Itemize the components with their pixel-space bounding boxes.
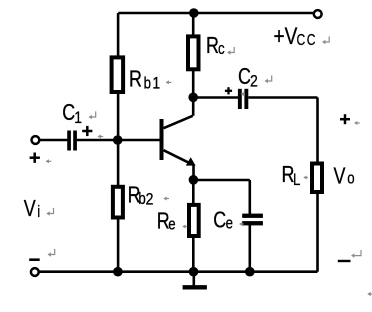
wire bottom rail [39,270,317,273]
node bottom Ce junction [245,267,255,277]
ground bar [183,285,207,289]
wire Ce vertical top [249,180,252,214]
wire collector to C2 [193,96,238,99]
plus input [30,153,40,163]
label Vo [334,163,355,189]
node top rail junction [189,8,199,18]
resistor RL [312,164,322,193]
svg-text:o: o [347,169,354,188]
minus output [338,260,351,262]
label Vi [24,196,40,222]
svg-text:C: C [213,207,226,233]
wire C1 to base [77,139,160,142]
resistor Re [189,205,199,236]
wire emitter stub [192,165,195,181]
plus at C2 [225,87,232,94]
node base junction [113,135,123,145]
svg-text:i: i [37,203,40,222]
wire input to C1 [40,139,68,142]
mark return after Vi [46,208,53,216]
ground stub [193,272,196,290]
label Rb1 [129,66,160,92]
svg-text:V: V [334,163,346,189]
svg-text:2: 2 [146,190,154,208]
svg-text:C: C [238,64,251,90]
transistor Q1 collector lead [164,116,193,128]
svg-text:b: b [144,74,151,93]
label +Vcc [274,22,318,50]
label RL [282,162,301,189]
mark arrow on C2 plate [241,92,246,96]
plus at C1 [82,126,92,136]
svg-text:c: c [218,39,225,58]
node collector junction [188,93,198,103]
transistor Q1 emitter arrow [186,157,196,165]
mark arrow left of Ce [239,222,244,226]
label Ce [213,207,233,233]
mark arrow left of Re resistor [182,225,187,229]
svg-text:R: R [206,33,219,59]
mark return after C1 [89,111,96,119]
node bottom middle junction [189,267,199,277]
wire top rail [118,12,313,15]
terminal +Vcc [314,10,322,18]
wire emitter to Ce branch [193,179,250,182]
capacitor Ce [242,214,263,226]
svg-text:e: e [226,214,233,233]
node bottom left junction [113,267,123,277]
mark return right of output minus [351,250,361,258]
terminal input top [32,136,40,144]
mark return after Rc [227,47,234,55]
label C1 [62,100,82,127]
svg-text:b: b [138,190,145,209]
mark arrow bottom right [367,292,372,296]
wire output vertical [316,98,319,272]
mark return after C2 [265,75,272,83]
label C2 [238,64,258,91]
plus output [340,114,350,124]
label Re [157,208,176,234]
resistor Rb1 [112,57,124,92]
svg-text:+V: +V [274,22,298,50]
svg-text:e: e [168,215,175,234]
mark arrow right of input plus [46,159,52,163]
mark arrow right of output plus [354,121,360,125]
minus input [29,258,40,261]
wire C2 to output [248,96,317,99]
mark arrow after Rb2 [163,197,169,201]
mark return right of input minus [48,249,55,257]
wire left bias vertical [117,13,120,272]
wire Re vertical [192,180,195,272]
wire collector vertical [192,13,195,116]
mark return after +Vcc [322,36,329,44]
capacitor C1 [67,131,77,151]
wire Ce vertical bottom [249,225,252,272]
resistor Rc [188,36,199,69]
terminal input bottom [31,268,39,276]
label Rb2 [128,183,154,209]
mark arrow after Rb1 [166,80,172,84]
svg-text:1: 1 [152,74,160,92]
svg-text:V: V [24,196,36,222]
resistor Rb2 [113,187,123,218]
svg-text:1: 1 [74,109,82,127]
transistor Q1 base bar [160,119,164,160]
mark arrow right of C1 plus [98,135,104,139]
svg-text:R: R [129,66,142,92]
svg-text:2: 2 [250,72,258,90]
svg-text:L: L [293,170,300,189]
transistor Q1 emitter lead [164,150,190,163]
mark arrow left of RL resistor [303,176,308,180]
capacitor C2 [238,89,248,109]
node emitter junction [189,175,199,185]
svg-text:CC: CC [296,31,317,49]
label Rc [206,33,225,59]
